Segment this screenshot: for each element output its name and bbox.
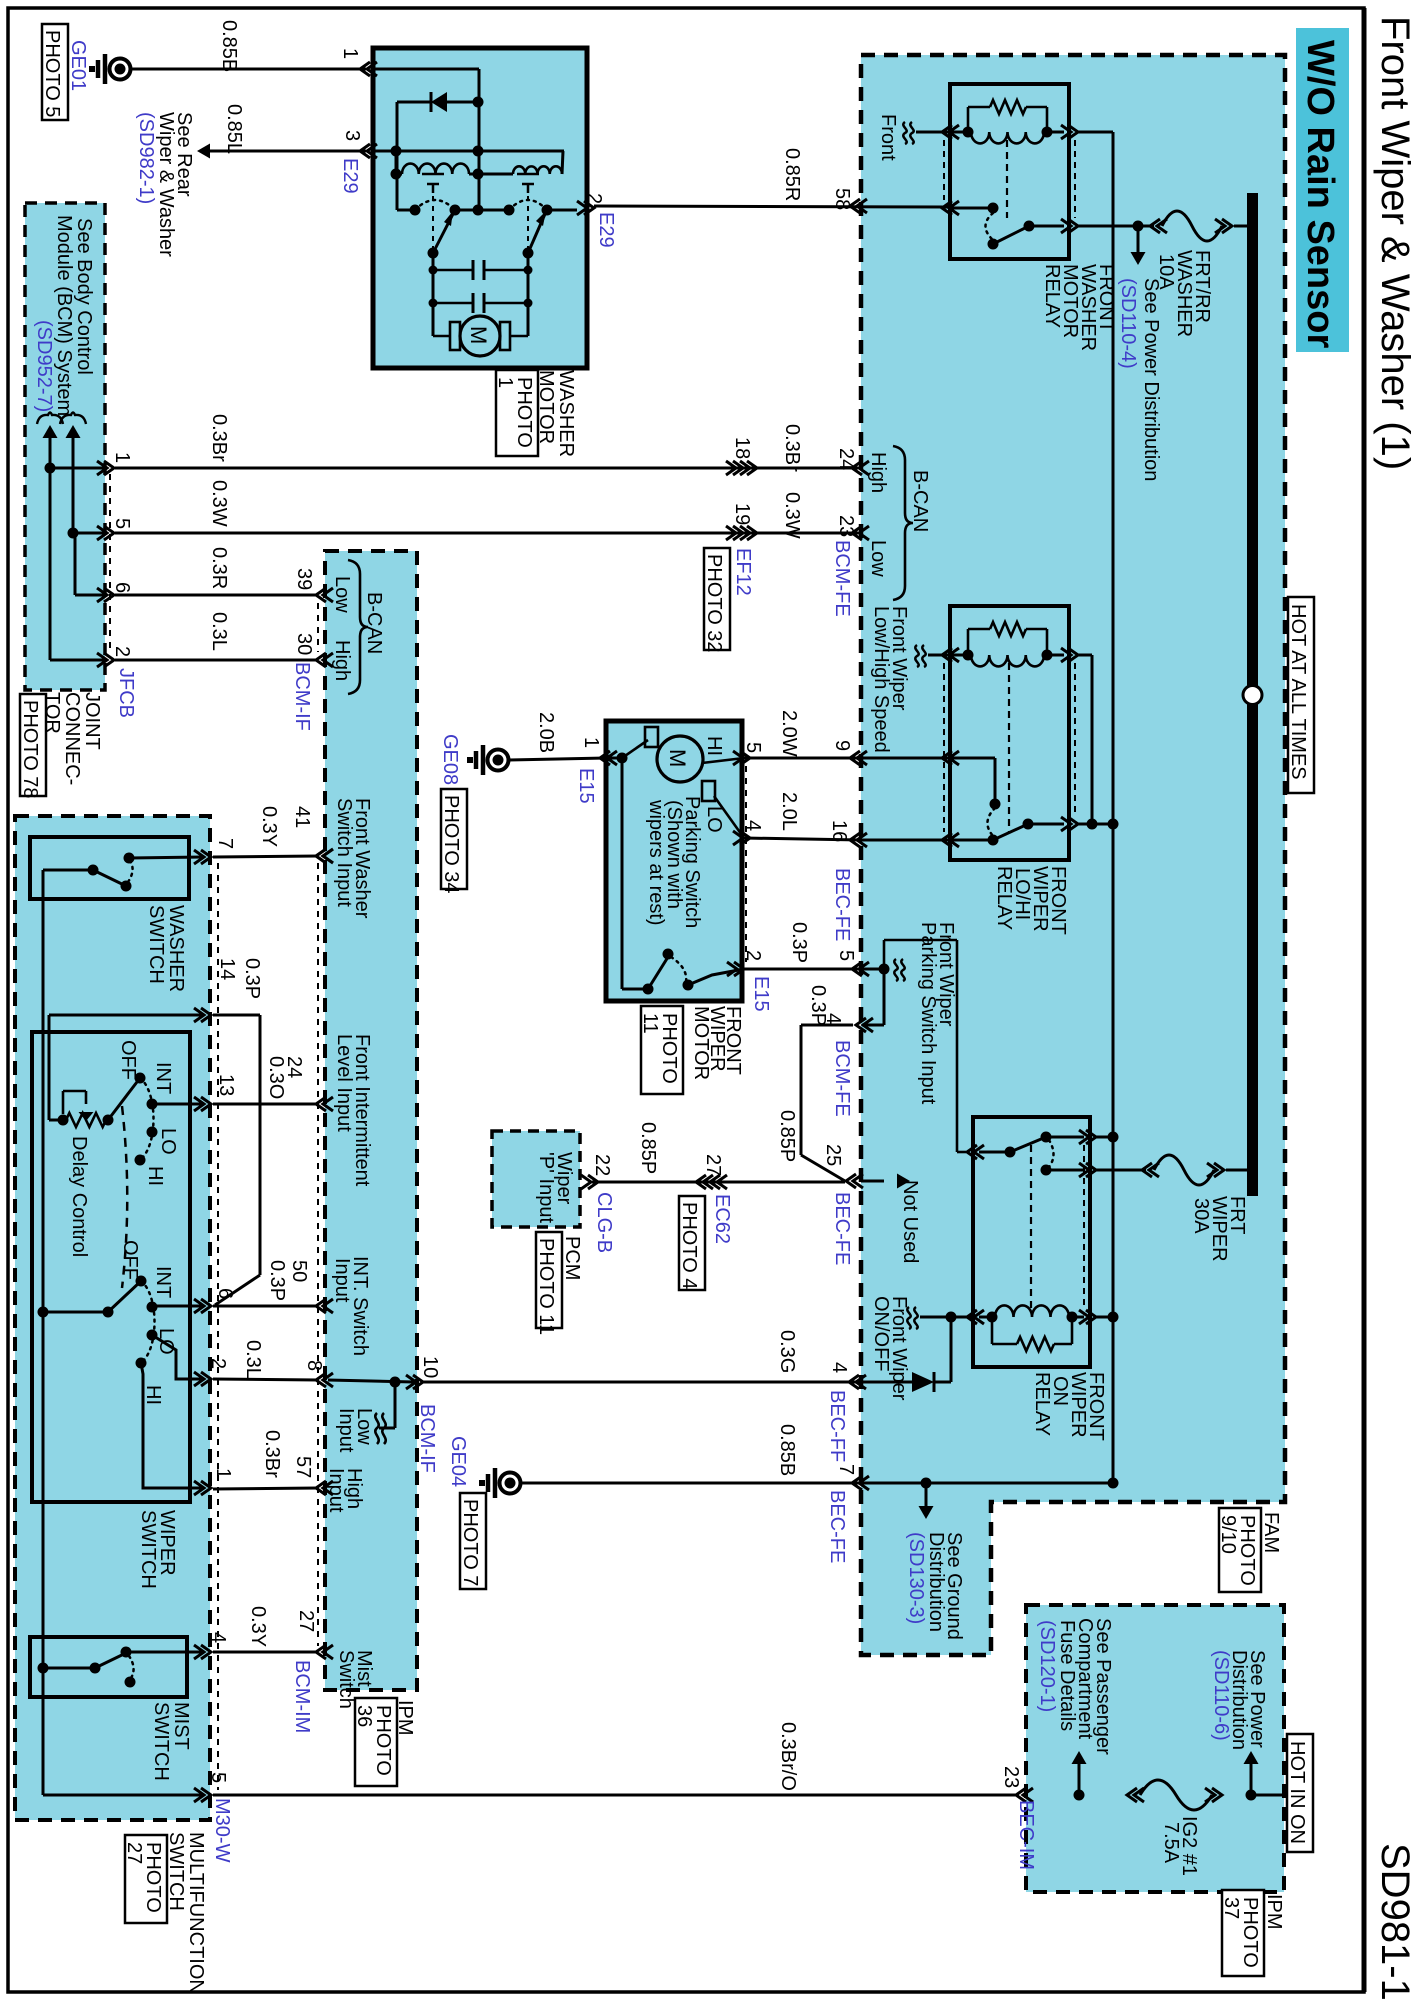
- svg-text:23: 23: [835, 515, 857, 537]
- connector E15 pin 1: [607, 751, 617, 765]
- connector M30-W pin 1: [194, 1481, 204, 1495]
- connector E29 pins 1 and 3: [367, 62, 377, 76]
- svg-text:7: 7: [214, 838, 236, 849]
- arrow: see ground distribution: [925, 1483, 928, 1506]
- splice circle on power rail: [1243, 686, 1262, 705]
- resistor: relay K1 coil shunt: [967, 107, 970, 130]
- wire 0.3P to BEC pin 5: [744, 968, 884, 971]
- wire 0.3W B-CAN low, in-line EF12 pin 19, BCM-FE pin 23: [115, 532, 858, 535]
- svg-text:10: 10: [419, 1356, 441, 1378]
- svg-text:1: 1: [111, 452, 133, 463]
- svg-text:0.3R: 0.3R: [208, 547, 230, 589]
- relay K2 front wiper lo/hi relay box: [950, 606, 1069, 860]
- wire 2.0L motor pin 4 to pin 16: [744, 838, 861, 840]
- svg-text:30: 30: [293, 633, 315, 655]
- svg-text:13: 13: [215, 1074, 237, 1096]
- photo box PHOTO 1: [496, 370, 538, 456]
- svg-text:2.0B: 2.0B: [535, 712, 557, 753]
- wire: K3 NC contact to ground rail: [1046, 1136, 1084, 1139]
- wire: multifunction switch common rail: [42, 870, 45, 1795]
- svg-text:HI: HI: [144, 1166, 166, 1186]
- parking switch contact arc: [671, 957, 686, 982]
- junction: ground rail bottom: [1108, 1478, 1119, 1489]
- washer switch arm: [93, 870, 126, 886]
- wire 0.3P diagonal to pin 6 node: [215, 1275, 260, 1305]
- svg-text:HI: HI: [703, 736, 725, 756]
- wire: parking switch to E15 pin 2: [688, 969, 744, 985]
- photo box PHOTO 7: [460, 1493, 486, 1589]
- svg-text:E15: E15: [750, 976, 772, 1012]
- diode D1 in washer motor: [397, 101, 431, 104]
- svg-text:BEC-FE: BEC-FE: [831, 1192, 853, 1265]
- brace and label B-CAN: [893, 446, 913, 600]
- svg-text:2.0W: 2.0W: [778, 710, 800, 757]
- svg-text:Module (BCM) System: Module (BCM) System: [53, 215, 75, 416]
- mechanical linkage dash: [122, 1106, 127, 1288]
- arrow: not used stub: [861, 1180, 884, 1183]
- wire 0.3R to BCM-IF pin 39: [115, 594, 318, 597]
- svg-text:GE01: GE01: [67, 40, 89, 91]
- svg-text:OFF: OFF: [119, 1240, 141, 1280]
- connector JFCB pin 2: [50, 659, 105, 662]
- ground GE01: [103, 54, 108, 84]
- svg-text:39: 39: [293, 568, 315, 590]
- photo box PHOTO 36: [355, 1698, 397, 1786]
- wire: K2 low contact: [950, 839, 993, 842]
- wire 0.3P pin 14 lead: [213, 1014, 260, 1017]
- svg-text:1: 1: [580, 737, 602, 748]
- washer switch box: [30, 837, 189, 899]
- relay K1 connector dashes: [943, 140, 945, 200]
- photo box PHOTO 11: [641, 1006, 683, 1094]
- switch S2 washer motor contact arc: [509, 200, 547, 210]
- svg-text:2: 2: [583, 193, 605, 204]
- svg-text:0.3P: 0.3P: [266, 1260, 288, 1301]
- svg-text:BCM-FE: BCM-FE: [831, 540, 853, 617]
- wire: ground rail 0.85B vertical: [1112, 132, 1115, 1483]
- wiper switch pole 1 contacts INT LO HI: [147, 1099, 158, 1110]
- svg-text:Low: Low: [331, 576, 353, 613]
- svg-text:PHOTO 5: PHOTO 5: [41, 30, 63, 117]
- svg-text:1: 1: [494, 377, 516, 388]
- svg-text:LO: LO: [157, 1128, 179, 1155]
- svg-text:0.3Br: 0.3Br: [261, 1430, 283, 1478]
- wire: INT contact to M30-W pin 13: [152, 1103, 203, 1106]
- svg-text:BCM-IF: BCM-IF: [291, 662, 313, 731]
- parking switch arm: [648, 957, 668, 989]
- wire 0.3Y to BCM pin 27: [213, 1651, 318, 1654]
- connector BEC-FE pin 25: [853, 1174, 863, 1188]
- svg-text:BEC-FE: BEC-FE: [826, 1490, 848, 1563]
- wire: 0.3P down to BEC pin 25: [800, 1025, 803, 1155]
- photo box PHOTO 37: [1222, 1890, 1264, 1976]
- label box HOT AT ALL TIMES: [1288, 597, 1314, 793]
- relay K2 contact arc: [987, 808, 995, 836]
- arrow: to rear wiper & washer: [197, 144, 210, 159]
- svg-text:1: 1: [212, 1468, 234, 1479]
- svg-text:9: 9: [831, 740, 853, 751]
- relay K2 connector dashes: [943, 663, 945, 832]
- svg-text:Not Used: Not Used: [899, 1180, 921, 1263]
- svg-text:5: 5: [111, 518, 133, 529]
- svg-text:WASHER: WASHER: [555, 370, 577, 457]
- photo box PHOTO 34: [441, 789, 467, 889]
- svg-text:4: 4: [822, 1013, 844, 1024]
- wire: K2 high contact: [950, 757, 995, 760]
- relay K3 switch arm: [1010, 1137, 1046, 1152]
- wire: BCM pin 8 to pin 10 through: [328, 1380, 414, 1382]
- svg-text:0.3Br/O: 0.3Br/O: [777, 1722, 799, 1791]
- connector BEC-FE pin 7: [859, 1476, 869, 1490]
- wire 0.85B GE01 to E29 pin 1: [131, 68, 366, 71]
- svg-text:GE08: GE08: [439, 734, 461, 785]
- wire 0.3G pin 10 to BEC-FF pin 4: [422, 1381, 861, 1384]
- wire: K3 coil right to ground rail: [1079, 1310, 1089, 1324]
- mist switch arm: [95, 1653, 126, 1668]
- svg-text:WASHER: WASHER: [165, 905, 187, 992]
- svg-text:Fuse Details: Fuse Details: [1056, 1620, 1078, 1731]
- relay K1 coil row: [950, 131, 968, 134]
- svg-text:(SD982-1): (SD982-1): [135, 112, 157, 204]
- svg-text:24: 24: [835, 448, 857, 470]
- svg-text:Delay Control: Delay Control: [68, 1136, 90, 1257]
- wire: K3 coil feed: [950, 1317, 953, 1382]
- svg-text:HI: HI: [142, 1385, 164, 1405]
- svg-text:BEC-FF: BEC-FF: [826, 1390, 848, 1462]
- relay K3 moving contact: [979, 1151, 1010, 1154]
- svg-text:0.3L: 0.3L: [242, 1340, 264, 1379]
- svg-text:RELAY: RELAY: [1031, 1372, 1053, 1436]
- svg-text:2: 2: [742, 950, 764, 961]
- wire 0.3L to BCM-IF pin 30: [115, 659, 318, 662]
- node: front wiper parking switch input: [879, 964, 890, 975]
- connector BCM-IF pin 10: [406, 1375, 416, 1389]
- svg-text:14: 14: [216, 958, 238, 980]
- svg-text:E15: E15: [575, 768, 597, 804]
- svg-text:LO: LO: [155, 1328, 177, 1355]
- svg-text:MOTOR: MOTOR: [690, 1006, 712, 1080]
- wiper switch pole 2 contact arc: [141, 1281, 155, 1363]
- block: multifunction switch M30-W: [15, 816, 210, 1820]
- switch S1 washer motor contact arc: [415, 200, 455, 210]
- svg-text:Input: Input: [331, 1258, 353, 1303]
- relay K2 actuator dash: [1008, 663, 1010, 832]
- wire: K2 common out: [1028, 823, 1064, 826]
- svg-text:Distribution: Distribution: [925, 1532, 947, 1632]
- svg-text:CLG-B: CLG-B: [593, 1192, 615, 1253]
- wire: diode to K3 coil: [934, 1381, 951, 1384]
- svg-text:RELAY: RELAY: [993, 866, 1015, 930]
- connector BEC pin 58: [857, 199, 867, 213]
- wiper switch pole 2 arm (OFF): [108, 1281, 141, 1312]
- svg-text:JOINT: JOINT: [81, 692, 103, 750]
- relay K2 switch arm: [993, 824, 1028, 840]
- svg-text:5: 5: [742, 742, 764, 753]
- wire: INT contact to M30-W pin 6: [152, 1305, 203, 1308]
- svg-text:25: 25: [822, 1144, 844, 1166]
- fuse F3 IG2 #1 7.5A: [1134, 1788, 1144, 1802]
- wire: motor brush feed: [622, 740, 648, 758]
- svg-text:MULTIFUNCTION: MULTIFUNCTION: [185, 1832, 207, 1994]
- svg-text:(SD110-4): (SD110-4): [1117, 278, 1139, 369]
- svg-text:22: 22: [591, 1154, 613, 1176]
- ground GE08: [481, 745, 486, 775]
- svg-text:High: High: [867, 452, 889, 493]
- inductor L1 washer motor: [396, 173, 402, 176]
- wire 0.85L to E29 pin 3: [205, 150, 366, 153]
- block: BCM/IPM connector column: [325, 551, 417, 1690]
- wire and connector BEC pin 16 (2.0L low speed): [861, 839, 948, 842]
- wire 0.3P M30-W pin 14: [49, 1014, 203, 1017]
- svg-text:PCM: PCM: [561, 1236, 583, 1280]
- svg-text:wipers at rest): wipers at rest): [645, 799, 667, 926]
- wire 2.0B GE08 to E15 pin 1: [509, 758, 606, 760]
- svg-text:3: 3: [341, 130, 363, 141]
- svg-text:MIST: MIST: [170, 1702, 192, 1750]
- wiper switch pole 1 contact arc: [140, 1078, 154, 1160]
- svg-text:4: 4: [828, 1362, 850, 1373]
- svg-text:PHOTO 11: PHOTO 11: [535, 1238, 557, 1335]
- relay K3 connector dashes: [972, 1160, 974, 1308]
- connector JFCB pin 6: [74, 533, 77, 595]
- relay K3 contact connector: [974, 1145, 984, 1159]
- svg-text:58: 58: [831, 188, 853, 210]
- svg-text:Level Input: Level Input: [333, 1034, 355, 1132]
- svg-text:(SD120-1): (SD120-1): [1036, 1620, 1058, 1712]
- diode D2 wiper on relay: [912, 1372, 934, 1392]
- junction: K2 common to ground rail: [1078, 823, 1113, 826]
- photo box PHOTO 11 PCM: [536, 1232, 562, 1328]
- svg-text:57: 57: [292, 1456, 314, 1478]
- fuse F2 FRT WIPER 30A: [1149, 1163, 1159, 1177]
- wire: parking input to ON relay contact: [883, 940, 886, 964]
- wire 0.3Br B-CAN high, in-line EF12 pin 18, BCM-FE pin 24: [115, 467, 858, 470]
- svg-text:PHOTO 7: PHOTO 7: [459, 1499, 481, 1586]
- svg-text:HOT AT ALL TIMES: HOT AT ALL TIMES: [1287, 604, 1309, 780]
- svg-text:INT: INT: [152, 1062, 174, 1094]
- svg-text:27: 27: [295, 1610, 317, 1632]
- inductor: relay K2 coil: [971, 655, 1044, 666]
- svg-text:Low/High Speed: Low/High Speed: [870, 606, 892, 753]
- svg-text:18: 18: [731, 437, 753, 459]
- motor M front wiper: [657, 736, 703, 782]
- connector CLG-B pin 22: [581, 1175, 591, 1189]
- block: washer motor assembly: [373, 48, 587, 368]
- arrow: see power distribution SD110-6: [1246, 1790, 1257, 1801]
- svg-text:0.3Br: 0.3Br: [208, 414, 230, 462]
- wire: diode branch down: [396, 102, 399, 210]
- svg-text:16: 16: [828, 820, 850, 842]
- svg-text:(SD110-6): (SD110-6): [1210, 1650, 1232, 1741]
- wire: switch common to M30-W pin 5: [43, 1794, 203, 1797]
- parking switch common: [622, 988, 648, 991]
- connector E15 pin 2: [727, 962, 737, 976]
- in-line connector EC62 pin 27: [703, 1175, 713, 1189]
- connector E29 pin 2: [577, 201, 587, 215]
- svg-text:0.85L: 0.85L: [223, 104, 245, 154]
- svg-text:0.3P: 0.3P: [241, 958, 263, 999]
- block: front wiper motor assembly: [606, 721, 742, 1001]
- svg-text:2: 2: [111, 646, 133, 657]
- wire 0.3P corridor vertical: [259, 1015, 262, 1275]
- resistor: relay K2 coil shunt: [967, 629, 970, 653]
- svg-text:0.85B: 0.85B: [218, 20, 240, 72]
- potentiometer wiper arm: [62, 1091, 65, 1114]
- junction: motor ground node: [606, 757, 622, 760]
- actuator dash S1: [432, 196, 434, 248]
- svg-text:0.85B: 0.85B: [776, 1424, 798, 1476]
- connector M30-W pin 2: [194, 1372, 204, 1386]
- svg-text:9/10: 9/10: [1217, 1515, 1239, 1554]
- svg-text:23: 23: [1000, 1766, 1022, 1788]
- svg-text:BCM-FE: BCM-FE: [831, 1040, 853, 1117]
- svg-text:EC62: EC62: [711, 1194, 733, 1244]
- relay K3 coil row: [979, 1316, 992, 1319]
- wire 0.85P PCM to BEC pin 25: [592, 1181, 845, 1184]
- svg-text:ON/OFF: ON/OFF: [870, 1296, 892, 1372]
- svg-text:(SD130-3): (SD130-3): [905, 1532, 927, 1624]
- wire 0.3G BEC pin 4: [861, 1381, 912, 1384]
- washer switch contact arc: [128, 861, 133, 882]
- wire: low input tap: [394, 1382, 397, 1428]
- connector JFCB pin 5: [73, 532, 105, 535]
- wire: HI brush to pin 5: [702, 758, 744, 763]
- svg-text:LO: LO: [703, 806, 725, 833]
- wire: K2 coil to Front Wiper Low/High Speed (continues): [915, 645, 918, 667]
- svg-text:Front Wiper & Washer (1): Front Wiper & Washer (1): [1373, 16, 1417, 470]
- relay K1 actuator dash: [1006, 140, 1008, 218]
- wire 0.3Br to BCM pin 57: [213, 1488, 318, 1489]
- relay K1 switch arm: [988, 239, 999, 250]
- svg-text:Switch: Switch: [335, 1650, 357, 1709]
- svg-text:2: 2: [207, 1358, 229, 1369]
- wire 2.0W motor pin 5 to pin 9: [744, 757, 858, 760]
- svg-text:0.85P: 0.85P: [637, 1122, 659, 1174]
- wire 0.3Br/O M30-W pin 5 to BEC-IM pin 23: [213, 1794, 1019, 1797]
- svg-text:PHOTO 32: PHOTO 32: [703, 554, 725, 653]
- wire 0.3O to BCM pin 24: [213, 1103, 318, 1106]
- svg-text:INT: INT: [152, 1266, 174, 1298]
- wire: K1 common to fuse: [1029, 225, 1064, 228]
- wire: washer motor contact row: [455, 209, 509, 212]
- svg-text:B-CAN: B-CAN: [363, 592, 385, 654]
- svg-text:0.85P: 0.85P: [776, 1110, 798, 1162]
- svg-text:0.3Y: 0.3Y: [247, 1606, 269, 1647]
- wire: K1 coil to ground rail: [1061, 125, 1071, 139]
- svg-text:FAM: FAM: [1260, 1512, 1282, 1553]
- svg-text:'P' Input: 'P' Input: [535, 1152, 557, 1223]
- arrow: see power distribution: [1137, 226, 1140, 252]
- wire: K3 to FRT WIPER fuse: [1096, 1169, 1146, 1172]
- svg-text:SWITCH: SWITCH: [150, 1702, 172, 1781]
- inductor: relay K3 coil: [995, 1305, 1069, 1317]
- svg-text:BEC-IM: BEC-IM: [1015, 1800, 1037, 1870]
- relay K1 contact arc: [986, 213, 994, 240]
- svg-text:M30-W: M30-W: [211, 1798, 233, 1863]
- svg-text:SWITCH: SWITCH: [145, 905, 167, 984]
- photo box PHOTO 4: [679, 1196, 705, 1290]
- banner: W/O Rain Sensor: [1296, 28, 1349, 352]
- wire and connector BCM-FE pin 4: [883, 969, 886, 1025]
- svg-text:7.5A: 7.5A: [1160, 1822, 1182, 1864]
- svg-text:27: 27: [702, 1154, 724, 1176]
- braces: to BCM system: [37, 413, 63, 425]
- svg-text:Low: Low: [867, 540, 889, 577]
- svg-text:36: 36: [353, 1705, 375, 1727]
- wire 0.85R E29-2 to washer relay: [594, 206, 948, 207]
- wiper switch pole 2 common: [103, 1307, 114, 1318]
- brace and label B-CAN BCM: [348, 560, 368, 694]
- svg-text:PHOTO 4: PHOTO 4: [678, 1202, 700, 1289]
- svg-text:0.3G: 0.3G: [776, 1330, 798, 1373]
- svg-text:27: 27: [123, 1842, 145, 1864]
- svg-text:E29: E29: [595, 212, 617, 248]
- svg-text:BCM-IM: BCM-IM: [291, 1660, 313, 1733]
- wire: washer motor cap rails: [432, 253, 435, 336]
- svg-text:M: M: [466, 326, 491, 344]
- svg-text:HOT IN ON: HOT IN ON: [1286, 1741, 1308, 1844]
- relay K3 actuator dash: [1030, 1145, 1032, 1310]
- svg-text:4: 4: [742, 820, 764, 831]
- washer switch contact to M30-W pin 7: [124, 853, 135, 864]
- wire: motor internal ground rail: [621, 758, 624, 989]
- wire: pin 14 to delay control: [48, 1015, 51, 1120]
- wire 0.3L to BCM pin 8: [213, 1379, 318, 1380]
- svg-text:Input: Input: [335, 1408, 357, 1453]
- arrows: to BCM system: [43, 425, 58, 438]
- mist switch open contact: [125, 1677, 136, 1688]
- svg-text:OFF: OFF: [117, 1040, 139, 1080]
- svg-text:0.3W: 0.3W: [208, 480, 230, 527]
- svg-text:2.0L: 2.0L: [778, 792, 800, 831]
- svg-text:(SD952-7): (SD952-7): [33, 320, 55, 412]
- capacitors C1 C2 washer motor: [433, 269, 473, 272]
- relay K3 NO contact: [1041, 1165, 1052, 1176]
- svg-text:JFCB: JFCB: [115, 668, 137, 718]
- svg-text:SD981-1: SD981-1: [1373, 1843, 1417, 2000]
- wire: washer motor internal row: [373, 150, 564, 153]
- svg-text:Parking Switch Input: Parking Switch Input: [917, 922, 939, 1105]
- svg-text:7: 7: [835, 1464, 857, 1475]
- svg-text:5: 5: [835, 950, 857, 961]
- svg-text:0.3Br: 0.3Br: [781, 424, 803, 472]
- svg-text:4: 4: [207, 1632, 229, 1643]
- bus: HOT AT ALL TIMES power rail: [1247, 193, 1258, 1196]
- svg-text:EF12: EF12: [732, 548, 754, 596]
- svg-text:0.3L: 0.3L: [208, 612, 230, 651]
- wire: K3 NO contact out: [1046, 1169, 1084, 1172]
- svg-text:SWITCH: SWITCH: [165, 1832, 187, 1911]
- actuator dash S2: [527, 196, 529, 248]
- svg-text:Wiper & Washer: Wiper & Washer: [155, 112, 177, 257]
- svg-text:SWITCH: SWITCH: [137, 1510, 159, 1589]
- svg-text:High: High: [331, 640, 353, 681]
- svg-text:CONNEC-: CONNEC-: [61, 692, 83, 785]
- svg-text:PHOTO 34: PHOTO 34: [440, 795, 462, 894]
- svg-text:0.3W: 0.3W: [781, 492, 803, 539]
- svg-text:24: 24: [283, 1056, 305, 1078]
- connector BEC-IM pin 23: [1023, 1788, 1033, 1802]
- svg-text:IPM: IPM: [1263, 1894, 1285, 1930]
- wire: mist contact to M30-W pin 4: [126, 1651, 203, 1654]
- relay K3 contact arc: [1049, 1140, 1054, 1167]
- block: engine-room relay/fuse box (BEC): [861, 55, 1285, 1655]
- connector JFCB pin 1: [50, 467, 105, 470]
- svg-text:W/O Rain Sensor: W/O Rain Sensor: [1299, 40, 1341, 348]
- parking switch contact: [683, 980, 694, 991]
- resistor R1 delay control: [66, 1113, 106, 1127]
- junction: ground distribution tap: [921, 1478, 932, 1489]
